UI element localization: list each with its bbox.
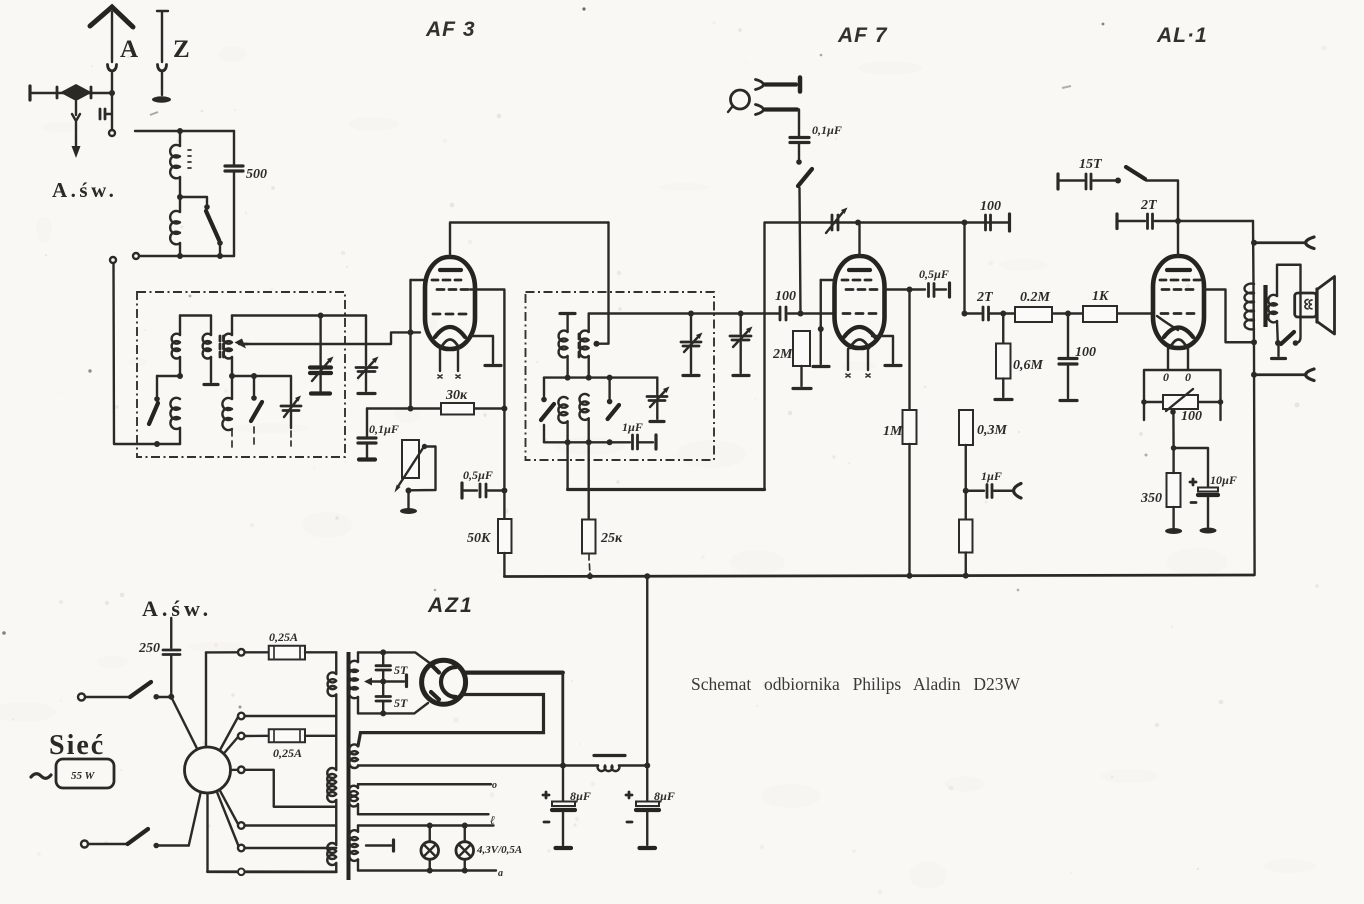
fuse 0.25A bottom [238,729,336,742]
svg-text:0.2M: 0.2M [1020,290,1051,305]
svg-text:1K: 1K [1092,289,1110,304]
IF core [578,334,581,357]
resistor 0.2M [1015,307,1052,322]
electrolytic 8uF second [626,766,659,849]
capacitor 0.5uF [462,483,507,498]
coil L2 [179,197,181,212]
svg-text:100: 100 [1075,345,1096,360]
svg-text:AZ1: AZ1 [427,594,474,617]
RF transformer T-A coil c with AVC tap arrow [231,316,233,336]
svg-text:Schemat odbiornika Philips: Schemat odbiornika Philips Aladin D23W [691,674,1021,694]
phono jack top [756,78,801,92]
box2 bottom junction wire [544,439,630,445]
switch S6 tone [1126,167,1145,179]
triode AF3 tube V1 [425,257,475,378]
grid trimmer CT2 [356,316,379,394]
coil L5 [222,398,232,430]
wire 15T to anode line [1146,181,1178,222]
svg-text:A: A [120,36,138,63]
svg-text:0: 0 [1185,370,1191,384]
dial lamp 1 [421,826,439,871]
HT bus heavy wire [568,223,1009,490]
filter choke [594,756,650,772]
antenna coupling circuit top wire [135,130,234,132]
coil L1 [179,131,181,146]
svg-text:0,1µF: 0,1µF [812,123,842,137]
svg-text:A.św.: A.św. [142,596,212,621]
antenna circuit bottom wire [133,246,234,259]
svg-text:2T: 2T [976,290,994,305]
phono switch S5 [796,159,812,313]
signal line trimmer CT3 [681,311,703,376]
svg-text:Sieć: Sieć [49,730,105,761]
svg-text:4,3V/0,5A: 4,3V/0,5A [476,844,522,856]
padder trimmer CT1 [281,396,301,447]
IF coil secondary [580,331,589,358]
grid stopper wires [1052,311,1154,317]
output tetrode AL1 tube V3 [1153,256,1204,348]
electrolytic 8uF first [543,766,575,849]
resistor 0.3M [959,410,973,520]
mains switch top S8 [78,682,171,701]
primary tap t1 [238,713,336,720]
svg-text:o: o [492,780,497,791]
svg-text:350: 350 [1140,491,1162,506]
IF secondary to signal line [589,314,779,333]
capacitor 2T [983,307,1015,320]
T-A core [220,336,224,357]
resistor 1M [903,290,917,576]
box2 coil L7 [579,394,588,420]
grid return vertical wire [409,280,411,409]
box1 left junction wire [154,373,183,402]
coil L4 [170,398,180,429]
svg-text:100: 100 [775,289,796,304]
grid feed wire from tap [240,332,420,344]
chassis return bus [504,573,1254,580]
antenna A symbol [90,7,133,136]
svg-text:100: 100 [980,199,1001,214]
capacitor 0.5uF AF7 [885,283,950,297]
svg-text:0,25А: 0,25А [269,630,298,644]
box1 top bus wire [180,314,366,316]
dial lamp 2 [456,826,474,871]
capacitor 500 [225,131,243,256]
primary bottom wire [208,869,337,876]
capacitor 100 top [986,214,1010,231]
earth electrode Z [152,11,171,103]
wire grid to tube [411,279,428,281]
potentiometer 100 bias [1163,389,1198,448]
svg-text:0,3M: 0,3M [977,423,1008,438]
mains transformer primary winding [327,652,336,872]
capacitor 5T lower [376,697,391,702]
svg-text:Z: Z [173,36,190,63]
box2 mid junction wire [544,375,657,381]
HT secondary 2 winding [349,744,358,768]
mains switch bottom S9 [81,829,189,848]
lightning arrester [30,84,115,101]
output transformer core [1263,285,1267,327]
svg-text:55 W: 55 W [71,770,96,782]
svg-text:50K: 50K [467,531,492,546]
svg-text:15T: 15T [1079,157,1103,172]
electrolytic 10uF [1171,445,1218,533]
svg-text:30к: 30к [445,388,468,403]
svg-text:8µF: 8µF [654,789,675,803]
svg-text:2T: 2T [1140,198,1158,213]
capacitor 100 tone [1059,314,1077,401]
band selector dashed box 1 [137,292,345,457]
capacitor 250 [163,618,180,700]
mains tilde [31,774,51,779]
svg-text:0,5µF: 0,5µF [463,468,493,482]
AZ1 second output wire [358,695,544,747]
box2 coil L6 [558,397,567,423]
AZ1 cathode output heavy wire [464,673,563,766]
wire A input to band box [110,257,180,447]
HT bottom wire to AZ1 [358,703,428,716]
grid coupling capacitor 100 [780,307,834,320]
resistor 1K [1083,306,1117,322]
AVC divider wire [962,223,982,317]
IF dashed box 2 [526,292,715,460]
svg-text:AF 7: AF 7 [837,24,888,47]
resistor 30K [411,403,508,415]
capacitor 0.1uF [358,409,411,460]
resistor 25K [582,442,596,576]
resistor below 0.3M [959,520,973,576]
rectified output wire [358,763,598,769]
svg-text:0,25A: 0,25A [273,746,302,760]
svg-text:A.św.: A.św. [52,178,117,202]
svg-text:2M: 2M [772,347,793,362]
tuning gang capacitor CV1 [310,316,334,394]
svg-text:1µF: 1µF [622,420,643,434]
AF3 screen wire down [470,290,504,409]
AL1 anode wire [1177,221,1179,256]
svg-text:a: a [498,868,503,879]
anode voltage winding [349,780,497,827]
AF3 anode top wire [450,223,609,258]
autotransformer hub [171,652,238,871]
AF7 anode wire [858,223,860,257]
signal line trimmer CT4 [730,311,753,376]
box1 right junction wire [229,373,291,404]
svg-text:0: 0 [1163,370,1169,384]
svg-text:8µF: 8µF [570,789,591,803]
svg-text:0,6M: 0,6M [1013,358,1044,373]
resistor 2M [793,331,811,389]
capacitor 1uF AVC out [966,484,1021,499]
resistor 0.6M [995,314,1012,400]
box2 left switch S3 [541,378,554,443]
svg-text:1M: 1M [883,424,903,439]
resistor 50K [498,409,512,577]
phone jack lower [1251,369,1314,381]
box 55W [56,759,114,788]
svg-text:500: 500 [246,167,267,182]
pentode AF7 tube V2 [835,256,885,377]
fuse 0.25A top [206,646,336,660]
box2 trimmer CT5 [647,378,670,422]
svg-text:AF 3: AF 3 [425,18,476,41]
HT secondary winding [349,652,358,713]
RF transformer T-A coil a [179,316,181,336]
wave switch on L1 [180,197,223,246]
AL1 cathode legs [1163,348,1191,384]
pickup (phono) circle [728,90,750,112]
rectifier AZ1 tube V4 [422,660,466,704]
primary tap t5 [238,845,336,852]
B+ riser wire [646,576,648,765]
AF7 top line junction dots [855,220,968,226]
capacitor 5T upper [376,666,391,670]
phone jack upper [1251,237,1314,249]
IF transformer top stub [560,314,575,333]
AF7 top line trimmer CT6 [826,208,848,234]
svg-text:10µF: 10µF [1210,473,1237,487]
speaker switch S7 [1272,332,1295,359]
svg-text:AL·1: AL·1 [1156,24,1208,47]
output transformer primary coil [1245,284,1254,330]
capacitor 2T AL1 [1117,214,1253,229]
arrester earth arrow [72,101,80,148]
HT top wire to AZ1 [358,649,429,662]
primary tap t3 [238,767,336,807]
band switch S2 [251,402,262,421]
potentiometer (sensitivity) [395,406,436,515]
band switch S1 [149,403,158,424]
capacitor 1uF [633,435,657,449]
feedback capacitor 15T [1058,174,1121,189]
svg-text:0,5µF: 0,5µF [919,267,949,281]
AF3 cathode earth bracket [472,336,501,366]
IF coil primary [559,331,568,358]
svg-text:5T: 5T [394,696,408,710]
HT right riser wire [1253,221,1255,575]
series capacitor on A lead [100,109,105,119]
AF7 cathode bracket [872,336,901,366]
loudspeaker [1295,277,1335,335]
wire oscillator feed from AF3 anode [594,223,609,347]
svg-text:250: 250 [138,641,160,656]
resistor 350 [1165,448,1182,534]
box2 middle switch S4 [607,378,619,419]
AL1 anode to transformer [1204,290,1257,346]
svg-text:100: 100 [1181,409,1202,424]
mains transformer core [347,652,351,880]
svg-text:0,1µF: 0,1µF [369,422,399,436]
primary tap t4 [238,822,336,829]
HT centre tap stub [364,652,407,713]
AF7 grid1 left wire to earth [813,280,835,367]
filament winding [349,823,503,880]
output transformer secondary coil [1268,265,1300,346]
capacitor 0.1uF phono [790,138,809,160]
RF transformer T-A coil b [210,316,212,336]
cathode bracket wires [1144,370,1221,420]
svg-text:25к: 25к [600,531,623,546]
svg-text:1µF: 1µF [981,469,1002,483]
phono jack bottom [756,105,800,137]
